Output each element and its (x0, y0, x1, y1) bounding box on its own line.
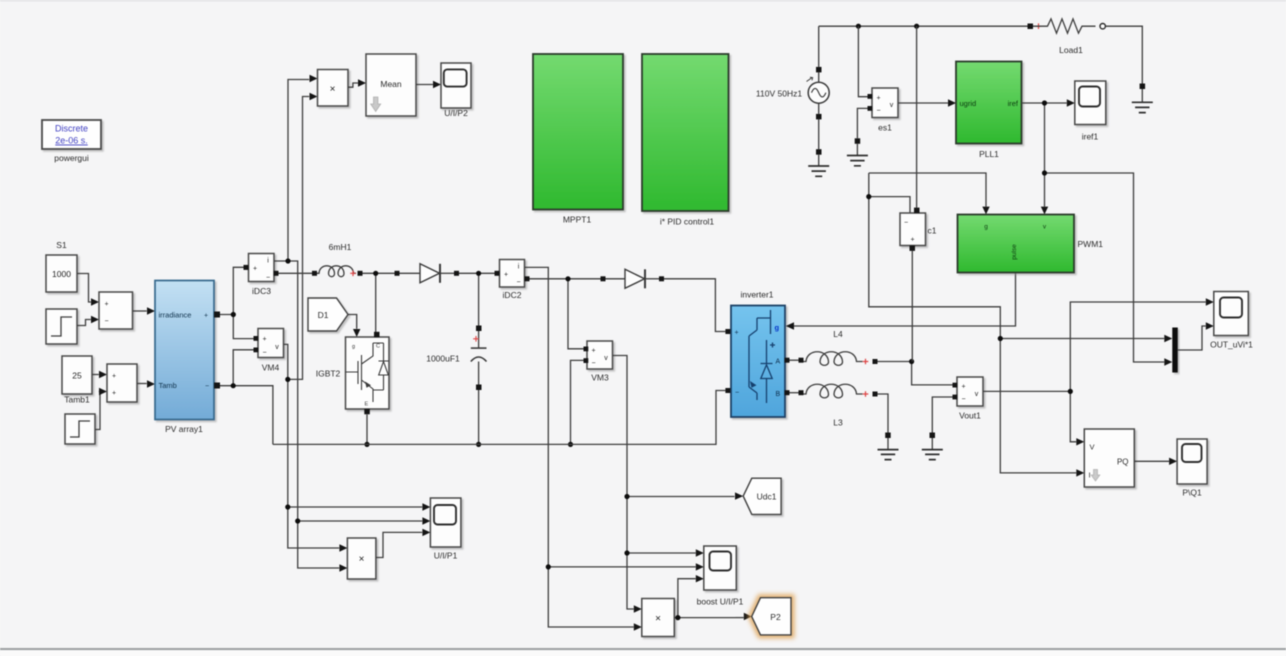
wire L3 to ground (878, 394, 889, 433)
svg-text:boost U/I/P1: boost U/I/P1 (697, 597, 744, 607)
current measurement iDC2 (495, 260, 530, 288)
svg-text:110V 50Hz1: 110V 50Hz1 (756, 89, 802, 99)
svg-text:i* PID control1: i* PID control1 (660, 217, 715, 227)
wire 25 to sum2 (92, 371, 107, 378)
svg-text:I: I (1089, 471, 1091, 480)
MPPT1 label (563, 215, 592, 225)
wire L4 to ic1 junction and Vout1 + (878, 359, 953, 385)
svg-text:Discrete: Discrete (55, 124, 88, 134)
inductor 6mH1 (312, 266, 363, 277)
diode D inverter (601, 269, 665, 288)
inverter + input port (725, 329, 730, 334)
ground under L3 (878, 433, 899, 460)
i* PID control1 label (660, 217, 715, 227)
svg-text:iDC3: iDC3 (252, 286, 271, 296)
wire PV+ to iDC3 and VM4+ (220, 267, 254, 338)
constant Tamb1 (25) (62, 356, 92, 405)
PV array + output port (214, 312, 220, 318)
subsystem PWM1 (958, 215, 1075, 273)
svg-text:irradiance: irradiance (159, 311, 192, 320)
svg-text:OUT_uVi*1: OUT_uVi*1 (1210, 340, 1253, 350)
PV array - output port (214, 383, 220, 389)
boost U/I/P1 label (697, 597, 744, 607)
svg-text:iDC2: iDC2 (503, 290, 522, 300)
PV array1 label (165, 424, 203, 434)
svg-text:+: + (112, 373, 116, 380)
voltage measurement es1 (868, 88, 899, 118)
goto tag D1 (308, 298, 348, 331)
capacitor 1000uF1 (471, 326, 487, 391)
wire PV- to VM4- and down to bottom rail (220, 350, 273, 445)
wire 1000 to sum1 (77, 274, 99, 306)
ic1 label (928, 226, 937, 236)
svg-text:+: + (504, 272, 508, 279)
svg-text:es1: es1 (878, 123, 892, 133)
voltage measurement Vout1 (953, 377, 984, 406)
svg-text:Udc1: Udc1 (757, 492, 777, 502)
svg-text:+: + (910, 237, 914, 244)
current measurement ic1 (900, 208, 926, 251)
wire PLL1 iref output to iref1 scope, PWM v input, and mux (1022, 99, 1173, 365)
svg-text:L3: L3 (833, 418, 843, 428)
svg-text:c1: c1 (928, 226, 937, 236)
svg-text:×: × (655, 614, 661, 625)
es1 label (878, 123, 892, 133)
IGBT2 block (346, 332, 390, 415)
scope OUT_uVi*1 (1214, 292, 1249, 336)
scope iref1 (1075, 81, 1106, 125)
svg-text:×: × (359, 554, 365, 565)
svg-text:+: + (735, 330, 739, 337)
iDC2 label (503, 290, 522, 300)
PQ measurement block (1084, 429, 1134, 487)
inverter A output port (785, 358, 804, 363)
wire Sum1 to PV irradiance (133, 307, 156, 314)
U/I/P2 label (444, 108, 468, 118)
diode D boost (395, 264, 460, 283)
wire es1 v output to PLL1 (898, 99, 956, 106)
wire iDC2 i output down to boost scope and product X2 (525, 267, 704, 630)
inverter - input port (725, 388, 730, 393)
wire X1 to Mean (348, 79, 366, 87)
IGBT2 label (316, 369, 341, 379)
svg-text:−: − (904, 220, 908, 227)
svg-text:Mean: Mean (380, 79, 402, 89)
svg-text:+: + (104, 301, 108, 308)
scope boost U/I/P1 (704, 546, 737, 590)
scope P/Q1 (1177, 439, 1207, 484)
svg-text:P2: P2 (770, 612, 781, 622)
svg-text:v: v (890, 102, 894, 109)
svg-text:+: + (591, 348, 595, 355)
ground under AC source (808, 166, 829, 176)
powergui block (Discrete 2e-06 s.) (42, 120, 101, 149)
inductor L4 (804, 352, 878, 366)
voltage measurement VM4 (254, 329, 284, 358)
subsystem MPPT1 (533, 54, 623, 210)
svg-text:VM3: VM3 (591, 373, 609, 383)
wire rail down to ic1 top (916, 26, 918, 207)
svg-text:C: C (376, 344, 380, 350)
wire VM4 v output up to product X1 and down to U/I/P1 and product X1b (284, 93, 431, 552)
wire VM3 v output down to Udc1, boost scope and product X2 (613, 356, 744, 613)
svg-text:−: − (266, 275, 270, 282)
1000uF1 label (426, 354, 460, 364)
svg-text:L4: L4 (833, 329, 843, 339)
ground under es1 (847, 156, 868, 166)
svg-text:1000uF1: 1000uF1 (426, 354, 460, 364)
svg-text:D1: D1 (318, 310, 329, 320)
wire X1b output to U/I/P1 third input (376, 529, 431, 558)
svg-text:−: − (735, 390, 739, 397)
svg-text:+: + (262, 336, 266, 343)
inverter1 label (740, 290, 773, 300)
svg-text:P\Q1: P\Q1 (1182, 488, 1202, 498)
svg-text:+: + (961, 384, 965, 391)
wire node to PWM g input and ic1 (866, 173, 1172, 477)
wire VM3 - to bottom rail (568, 360, 584, 447)
Load1 label (1059, 45, 1083, 55)
voltage measurement VM3 (584, 341, 613, 369)
wire mux output to OUT scope second input (1178, 322, 1214, 350)
bottom rail wire (PV minus to inverter minus) (273, 391, 726, 445)
svg-text:−: − (516, 279, 520, 286)
top rail wire (AC source to Load1) (819, 24, 1028, 29)
inductor L3 (804, 384, 878, 398)
wire inductor to diode1 with IGBT collector branch (363, 271, 395, 332)
svg-text:VM4: VM4 (262, 363, 280, 373)
wire Step1 to sum1 (77, 316, 99, 326)
product block X1 (top) (318, 70, 349, 107)
OUT_uVi*1 label (1210, 340, 1253, 350)
svg-text:PV array1: PV array1 (165, 424, 203, 434)
sum block Sum1 (99, 292, 133, 329)
goto tag P2 with orange highlight (752, 598, 791, 635)
svg-text:iref1: iref1 (1082, 132, 1099, 142)
svg-text:inverter1: inverter1 (740, 290, 773, 300)
svg-text:−: − (591, 360, 595, 367)
svg-text:iref: iref (1008, 99, 1019, 108)
wire IGBT2 emitter to bottom rail (364, 415, 369, 448)
wire ic1 bottom to L4 junction (911, 251, 913, 362)
wire Mean to scope U/I/P2 (416, 81, 441, 88)
svg-text:PWM1: PWM1 (1078, 239, 1104, 249)
svg-text:1000: 1000 (52, 269, 71, 279)
svg-text:pulse: pulse (1011, 244, 1018, 260)
resistor Load1 (1028, 19, 1106, 33)
svg-text:Vout1: Vout1 (959, 411, 981, 421)
svg-text:−: − (876, 108, 880, 115)
constant S1 (1000) (46, 240, 77, 292)
wire capacitor to bottom rail (476, 390, 481, 447)
P/Q1 label (1182, 488, 1202, 498)
current measurement iDC3 (244, 254, 275, 282)
subsystem PLL1 (956, 62, 1022, 144)
svg-text:E: E (365, 402, 369, 408)
inverter1 block (731, 306, 785, 418)
wire Load1 to ground (1105, 26, 1145, 102)
svg-text:S1: S1 (56, 240, 67, 250)
svg-text:−: − (205, 383, 209, 390)
svg-text:×: × (330, 84, 336, 95)
wire diode1 to iDC2 with capacitor branch (459, 271, 495, 326)
step block Step2 (65, 414, 95, 444)
PWM1 label (1078, 239, 1104, 249)
svg-text:v: v (275, 344, 279, 351)
wire Step2 to sum2 (96, 388, 108, 430)
wire Vout1 - to ground (932, 397, 952, 433)
svg-text:−: − (262, 350, 266, 357)
inverter g gate arrow (786, 322, 794, 329)
scope U/I/P1 (430, 498, 461, 547)
svg-text:2e-06 s.: 2e-06 s. (55, 136, 88, 146)
wire iDC3 i output up to product X1 and down to U/I/P1 and product X1b (274, 75, 430, 572)
svg-text:Load1: Load1 (1059, 45, 1083, 55)
svg-text:25: 25 (72, 371, 82, 381)
mux block (black bar) (1172, 328, 1178, 373)
svg-text:+: + (204, 313, 208, 320)
wire diode2 to inverter + input (664, 279, 725, 332)
110V 50Hz1 label (756, 89, 802, 99)
svg-text:powergui: powergui (54, 153, 89, 163)
ground under Load1 (1132, 102, 1153, 112)
wire D1 to IGBT2 gate (348, 315, 360, 338)
svg-text:ugrid: ugrid (960, 99, 977, 108)
svg-text:PQ: PQ (1117, 458, 1129, 467)
svg-text:+: + (876, 95, 880, 102)
Vout1 label (959, 411, 981, 421)
svg-text:v: v (975, 391, 979, 398)
svg-text:6mH1: 6mH1 (329, 242, 352, 252)
wire es1 - to ground (855, 108, 868, 155)
wire rail to es1 + input (858, 26, 867, 97)
Mean block (366, 54, 416, 116)
product block X1b (bottom left) (347, 538, 376, 579)
svg-text:−: − (961, 396, 965, 403)
L4 label (833, 329, 843, 339)
inverter B output port (785, 390, 804, 395)
wire iDC3 - output to inductor 6mH1 (274, 271, 313, 276)
product block X2 (bottom middle) (642, 599, 675, 637)
scope U/I/P2 (441, 63, 471, 108)
wire Vout1 v output to OUT scope, PQ V input (983, 298, 1214, 445)
wire Sum2 to PV Tamb (137, 380, 155, 387)
U/I/P1 label (434, 551, 458, 561)
PV array1 block (155, 281, 214, 420)
VM4 label (262, 363, 280, 373)
svg-text:g: g (984, 224, 988, 231)
wire PQ output to P/Q1 scope (1134, 458, 1177, 465)
svg-text:g: g (352, 344, 355, 350)
svg-text:Tamb1: Tamb1 (64, 395, 90, 405)
svg-text:U/I/P1: U/I/P1 (434, 551, 458, 561)
step block Step1 (46, 309, 77, 344)
svg-text:+: + (253, 266, 257, 273)
VM3 label (591, 373, 609, 383)
svg-text:B: B (776, 391, 781, 398)
L3 label (833, 418, 843, 428)
svg-text:A: A (776, 359, 781, 366)
svg-text:+: + (112, 390, 116, 397)
subsystem i* PID control1 (642, 54, 729, 211)
wire PWM pulse to inverter g (794, 273, 1016, 326)
wire iDC2 - output to diode2 with VM3 branch (530, 276, 601, 349)
svg-text:V: V (1090, 443, 1095, 452)
sum block Sum2 (107, 364, 137, 402)
powergui label (54, 153, 89, 163)
svg-text:−: − (104, 318, 108, 325)
wire X2 output to boost scope and P2 tag (674, 575, 751, 620)
svg-text:U/I/P2: U/I/P2 (444, 108, 468, 118)
svg-text:PLL1: PLL1 (979, 149, 999, 159)
6mH1 label (329, 242, 352, 252)
ground under Vout1 (922, 433, 943, 460)
AC source 110V 50Hz1 (807, 26, 830, 166)
goto tag Udc1 (743, 478, 781, 514)
svg-text:IGBT2: IGBT2 (316, 369, 341, 379)
iDC3 label (252, 286, 271, 296)
svg-text:v: v (604, 355, 608, 362)
svg-text:g: g (775, 323, 780, 332)
iref1 label (1082, 132, 1099, 142)
svg-text:Tamb: Tamb (159, 381, 177, 390)
svg-text:MPPT1: MPPT1 (563, 215, 592, 225)
PLL1 label (979, 149, 999, 159)
